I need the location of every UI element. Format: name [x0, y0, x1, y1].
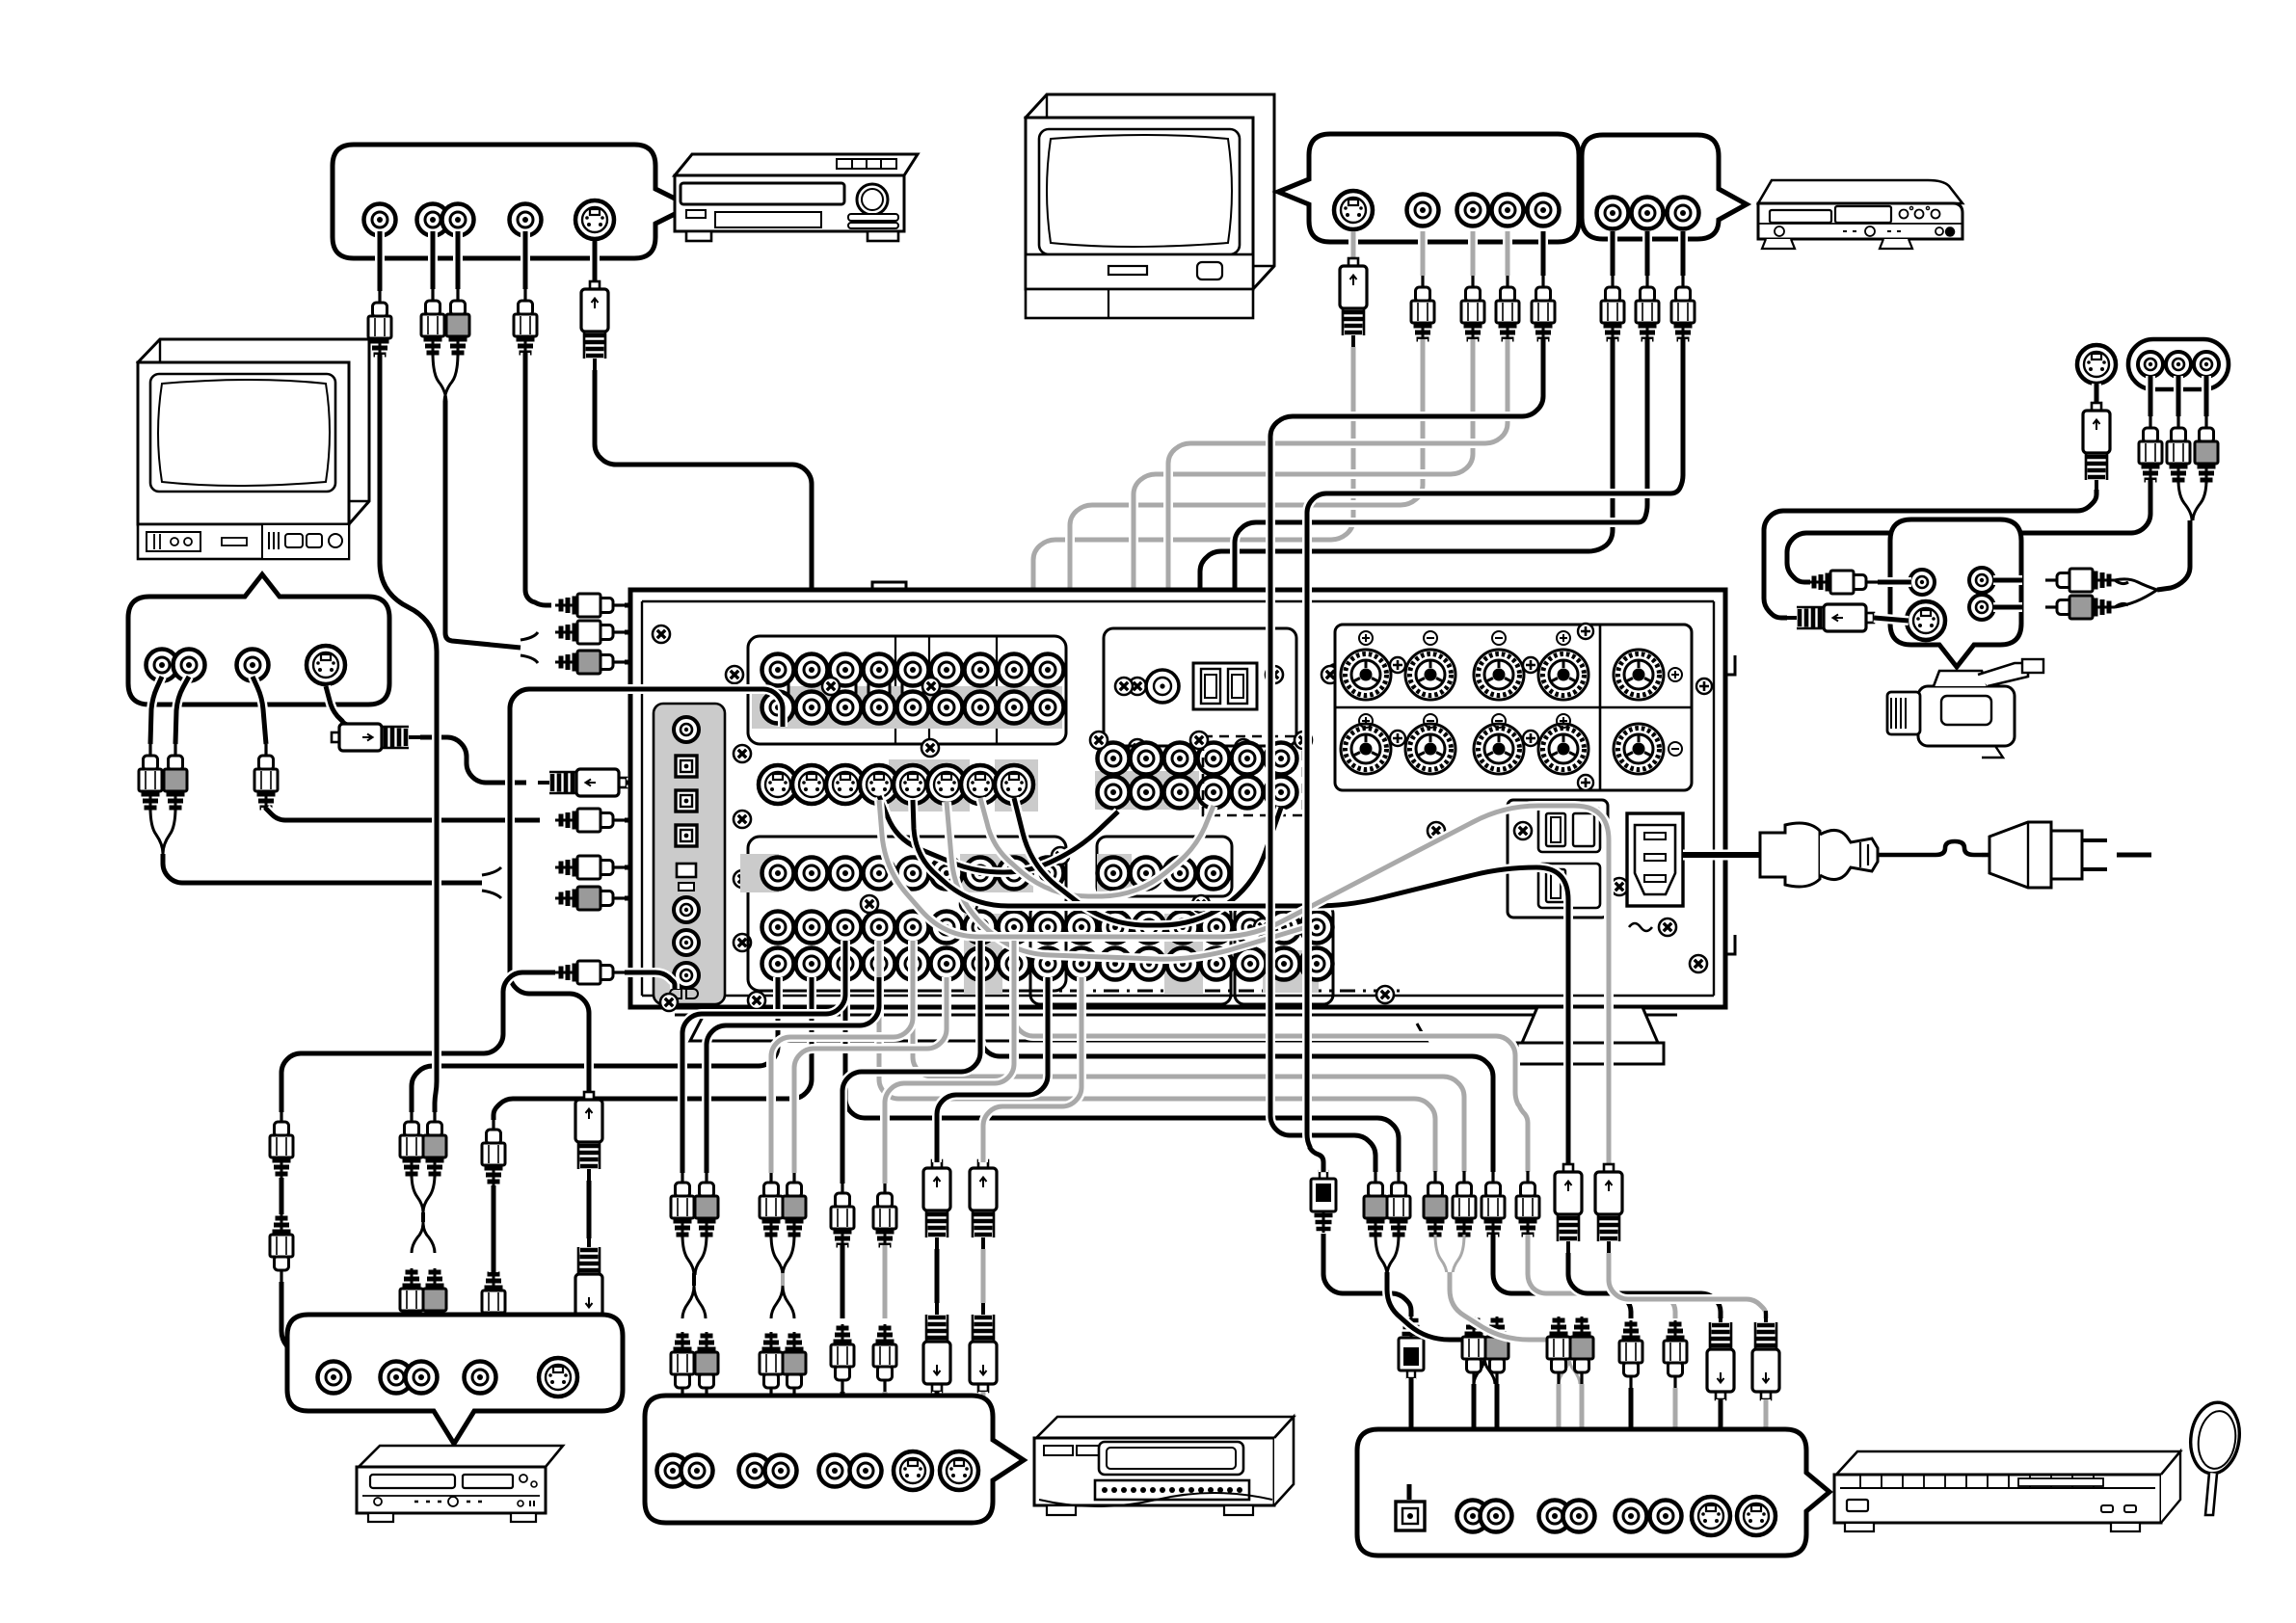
chain 427 lower plug: [400, 1268, 423, 1336]
box B1 S-video jack: [1334, 191, 1373, 229]
cable LTV jack1: [150, 677, 162, 744]
cable B1-1: [1418, 231, 1428, 276]
callout box A (to amplifier): [333, 145, 690, 258]
box LTV jack2: [174, 650, 205, 681]
S-video plug below: [2083, 403, 2110, 492]
wire pill1 to camcorder box: [1787, 480, 2150, 582]
DVD box jack1: [318, 1362, 350, 1394]
DVD box jack2: [381, 1362, 413, 1394]
amplifier device: [675, 154, 918, 241]
RCA plug on box A cable1: [368, 291, 391, 359]
camcorder device: [1887, 659, 2043, 758]
S-video plug box A: [581, 281, 608, 370]
cable from box A jack1: [375, 231, 385, 291]
receiver top notch: [872, 582, 906, 590]
RCA plug into receiver y656: [555, 621, 625, 644]
screws speaker block: [1390, 657, 1405, 673]
magnifier (stylus): [2186, 1399, 2244, 1477]
S-video port row: [759, 765, 797, 804]
S-video plug into receiver: [538, 769, 627, 796]
cable pill2: [2174, 376, 2183, 416]
wire B1 S-video to receiver S-video port: [1014, 347, 1353, 763]
wire box A jack1 long run (drawn on top): [380, 355, 437, 1112]
gray band top block lower row: [752, 686, 1062, 729]
DVD box jack4: [465, 1362, 496, 1394]
wall plug: [1982, 822, 2107, 888]
turntable device: [1834, 1451, 2180, 1531]
internal run svideo to SR chain black: [913, 800, 1568, 1164]
chain 512 upper plug: [494, 977, 812, 1120]
RCA plug gray pair A3: [446, 289, 469, 357]
cable LTV S-video jack: [326, 686, 347, 725]
VCR callout box: [645, 1396, 1024, 1523]
DD logo: [670, 989, 698, 998]
pill jack3: [2194, 352, 2219, 377]
cable B2-3: [1678, 231, 1688, 276]
wire B2-2 to receiver: [1235, 339, 1647, 742]
Y split to receiver entry plugs: [521, 632, 538, 663]
chain 451 lower plug: [423, 1268, 446, 1336]
wire LTV S-video to receiver entry: [420, 737, 526, 783]
mains dash: [2117, 853, 2151, 858]
power switch block: [1508, 800, 1608, 918]
S-video plug B1: [1340, 258, 1367, 347]
box A S-video jack: [575, 200, 614, 239]
IEC power inlet: [1627, 813, 1683, 906]
DVD callout box: [287, 1315, 623, 1444]
middle jacks row1: [762, 858, 794, 890]
antenna section: [1104, 628, 1296, 746]
wire B1-3 to receiver: [1168, 339, 1508, 773]
wire LTV pair down-right to chain292: [163, 854, 482, 883]
box LTV jack1: [147, 650, 178, 681]
wire pair A23 down: [445, 401, 521, 648]
standalone S-video connector top right: [2077, 345, 2116, 384]
entry line y851: [625, 815, 669, 825]
top block divider lines: [895, 636, 997, 744]
internal loop svideo6 to right: [1014, 798, 1281, 925]
internal loop from svideo4 to middle: [879, 796, 1118, 872]
digital panel jack 2: [674, 897, 699, 922]
receiver right notch: [1725, 655, 1735, 954]
camcorder box jack right2: [1969, 595, 1994, 620]
camcorder callout box: [1890, 519, 2021, 667]
cable from box A jack2: [428, 231, 438, 289]
wire S-video A to receiver: [595, 370, 812, 761]
receiver bottom protrusion: [690, 1015, 1427, 1041]
digital panel coax jack: [674, 717, 699, 742]
FM coax jack: [1146, 670, 1179, 703]
SR S-video chain gray 1669: [1595, 1164, 1622, 1253]
top block capsule links: [767, 653, 788, 724]
C-loop wire from receiver jack to S-video chain 611: [510, 689, 783, 1092]
CD deck device top-right: [1758, 180, 1962, 249]
SR pair2 chains gray: [879, 941, 1435, 1172]
camcorder box S-video jack: [1907, 601, 1945, 640]
SR single 1549 black: [980, 941, 1493, 1172]
optical jack 3: [676, 825, 697, 846]
DVD box jack3: [406, 1362, 438, 1394]
Y merge LTV pair: [150, 808, 175, 854]
box B2 jack 3: [1668, 198, 1699, 229]
screws top block: [822, 678, 840, 695]
top video block jacks row1: [762, 654, 794, 686]
dashed group outline: [1203, 736, 1303, 815]
receiver bottom chassis line: [675, 1014, 1677, 1017]
RCA plug gray into receiver y687: [555, 651, 625, 674]
screws preout: [1090, 732, 1108, 749]
box B2 jack 1: [1597, 198, 1629, 229]
box B1 jack 1: [1407, 195, 1439, 226]
entry line y628 into panel: [625, 605, 783, 640]
wire B1-2 to receiver: [1134, 339, 1473, 773]
DVD box S-video jack: [539, 1358, 577, 1397]
pill with 3 jacks: [2128, 339, 2229, 389]
AC tilde mark: [1629, 923, 1652, 931]
IEC connector: [1760, 823, 1878, 887]
screw by tilde: [1659, 918, 1676, 936]
left digital panel (gray): [654, 704, 725, 1004]
box B2 jack 2: [1632, 198, 1664, 229]
S-video plug into cam: [1785, 604, 1874, 631]
cable from box A S-video jack: [590, 241, 600, 281]
RCA plug right side white: [2045, 569, 2115, 592]
speaker posts row2: [1341, 724, 1391, 774]
wire pill pair down to camcorder right plugs: [2157, 520, 2190, 590]
cable sv standalone: [2092, 384, 2101, 403]
digital panel jack 4: [674, 963, 699, 988]
TV (monitor) top-center: [1026, 94, 1274, 318]
cable B1-3: [1503, 231, 1512, 276]
chain 427 into box jack: [404, 1336, 412, 1369]
internal run svideo to SR chain gray: [879, 800, 1609, 1164]
SR pair1 chains: [1364, 1171, 1387, 1238]
chain 451 upper plug: [423, 1110, 446, 1178]
chain 427 pair upper plugs: [412, 977, 778, 1112]
box B1 jack 3: [1492, 195, 1524, 226]
pill jack1: [2138, 352, 2163, 377]
RCA plug into receiver y628: [555, 594, 625, 617]
wire from plug-1009 down to chain 292: [281, 972, 555, 1112]
wire B1-1 to receiver: [1070, 339, 1423, 773]
VCR chain single 918 gray: [873, 1182, 896, 1249]
pill jack2: [2166, 352, 2191, 377]
VCR box S-video jacks: [894, 1451, 932, 1490]
optical into box: [1404, 1484, 1414, 1500]
middle jacks row3: [762, 948, 794, 980]
cable B2-1: [1608, 231, 1617, 276]
camcorder box jack right1: [1969, 568, 1994, 593]
S-video row gray patches: [889, 759, 970, 811]
chain 611 S-video lower: [575, 1236, 602, 1324]
VCR chain single 874 black: [831, 1182, 854, 1249]
entry line y687 into panel: [625, 662, 748, 675]
SR S-video chain black 1627: [1555, 1164, 1582, 1253]
middle jacks row2: [762, 912, 794, 944]
right pre-out gray band: [1095, 771, 1199, 810]
box B1 jack 2: [1457, 195, 1489, 226]
VCR chain pair 1 (708/733): [671, 1171, 694, 1238]
entry line S-video y812: [627, 778, 760, 787]
screws svideo row: [921, 739, 939, 757]
wire sv standalone to camcorder box: [1764, 490, 2096, 618]
camcorder box jack left: [1909, 570, 1935, 595]
cable B1-2: [1468, 231, 1478, 276]
callout box B1 (TV input jacks): [1278, 134, 1579, 242]
power line from inlet: [1683, 850, 1760, 861]
callout box B2 (monitor out): [1582, 135, 1747, 239]
RCA plug gray into receiver y932: [555, 887, 625, 910]
cable LTV jack3: [253, 677, 266, 744]
VCR chain feeds from receiver bottom jacks: [682, 977, 845, 1173]
optical jack 2: [676, 790, 697, 811]
internal gray run to lower right: [947, 802, 1306, 959]
wire jack4 to receiver entry: [525, 578, 551, 605]
cable pill1: [2146, 376, 2155, 416]
wavy tails right plugs: [2115, 580, 2128, 607]
chain 292 lower into box: [281, 1282, 332, 1372]
screws left panel: [734, 745, 751, 762]
RCA plug into cam jack left: [1808, 571, 1878, 594]
S-video plug horizontal LTV: [332, 724, 420, 751]
cable pill3: [2202, 376, 2211, 416]
right pre-out jacks row1: [1098, 743, 1130, 775]
top video block jacks row2: [762, 692, 794, 724]
VCR chain S-video 972 black: [923, 1160, 950, 1249]
box LTV S-video jack: [307, 646, 345, 684]
Y split to receiver pair entries: [482, 867, 501, 898]
wire LTV jack3 to receiver entry y851: [266, 808, 540, 820]
VCR chain pair 2 (800/824) gray: [760, 1171, 783, 1238]
receiver foot right: [1522, 1007, 1658, 1043]
turntable callout box: [1357, 1429, 1829, 1556]
SR optical chain: [1311, 1171, 1336, 1233]
box A jack 1: [364, 204, 396, 236]
power cord wiggle: [1878, 841, 1982, 855]
cable B1-4: [1538, 231, 1548, 276]
VCR box jacks: [657, 1455, 689, 1487]
RCA plug into receiver y851: [555, 809, 625, 832]
cable from box A jack4: [521, 231, 530, 289]
optical jack 1: [676, 756, 697, 777]
VCR chain S-video 1020 gray: [970, 1160, 997, 1249]
chain 292 upper plug pair: [277, 1078, 286, 1110]
speaker posts row1: [1341, 650, 1391, 700]
speaker terminal block: [1335, 625, 1692, 790]
RCA plug on box A cable4: [514, 289, 537, 357]
digital panel jack 3: [674, 930, 699, 955]
VCR device: [1034, 1417, 1294, 1515]
box B1 jack 4: [1528, 195, 1560, 226]
TT box S-video jacks: [1692, 1497, 1730, 1535]
top video block outline: [748, 636, 1066, 744]
receiver dashed bottom edge: [800, 990, 1407, 993]
wire B1-4 long down (drawn on top): [1270, 339, 1543, 1172]
cable B2-2: [1642, 231, 1652, 276]
box A jack 2: [417, 204, 449, 236]
horizontal plug into receiver bottom left: [555, 961, 625, 984]
wire B2-3 long down (drawn on top): [1307, 339, 1683, 1172]
chain 427/451 Y merge and resplit: [412, 1174, 435, 1212]
Y merge of pair A2/A3: [433, 353, 458, 403]
screws antenna: [1115, 678, 1133, 695]
internal gray loop svideo5: [980, 798, 1214, 896]
screws right area: [1690, 955, 1707, 972]
chain 512 lower plug: [482, 1270, 505, 1338]
screws middle band: [861, 895, 878, 913]
DVD player device: [357, 1446, 563, 1522]
entry line y656 into panel: [625, 632, 763, 665]
AM terminal block: [1193, 663, 1257, 709]
box A jack 3: [442, 204, 474, 236]
Y merge pill pair 2/3: [2178, 480, 2206, 520]
SR single 1585 gray: [1014, 941, 1528, 1172]
screws power block: [1514, 822, 1532, 839]
right pre-out jacks row2: [1098, 777, 1130, 809]
box A jack 4: [510, 204, 542, 236]
callout box LTV: [128, 574, 389, 705]
cable LTV jack2: [175, 677, 189, 744]
gray patches middle rows: [960, 854, 999, 892]
receiver rear panel body: [630, 590, 1725, 1007]
cable B1 S-video: [1348, 231, 1358, 258]
right post polarity: [1669, 668, 1682, 681]
TT box optical jack: [1396, 1502, 1425, 1530]
left TV (monitor): [138, 339, 369, 559]
box LTV jack3: [237, 650, 269, 681]
RCA plug white pair A2: [421, 289, 444, 357]
digital small port: [677, 864, 696, 877]
RCA plug right side gray: [2045, 596, 2115, 619]
cable from box A jack3: [453, 231, 463, 289]
wire B2-1 to receiver: [1200, 339, 1613, 742]
TT box jacks: [1457, 1501, 1489, 1532]
middle band blocks: [748, 837, 1066, 991]
polarity marks: [1359, 631, 1373, 645]
RCA plug into receiver y900: [555, 856, 625, 879]
